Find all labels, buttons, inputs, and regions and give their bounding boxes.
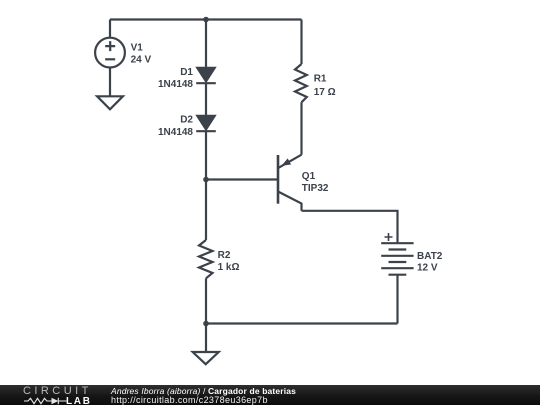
diode D1 [196, 68, 216, 83]
footer text line 2 [111, 395, 268, 405]
svg-text:TIP32: TIP32 [302, 183, 329, 194]
wire bottom net (node C to BAT2) [206, 322, 398, 324]
resistor R2 [199, 240, 213, 278]
wire D1 to D2 [205, 83, 207, 116]
wire top net (V1 to R1 through node A) [110, 18, 302, 20]
label D2 value [158, 115, 193, 138]
label D1 value [158, 67, 193, 90]
node C (bottom junction) [203, 321, 209, 327]
node B (base junction) [203, 177, 209, 183]
label BAT2 plus terminal [385, 233, 393, 241]
svg-text:D2: D2 [180, 115, 193, 126]
wire V1 top stem [109, 20, 111, 38]
svg-text:R1: R1 [314, 73, 327, 84]
CircuitLab logo symbol row (resistor + diode) and LAB [23, 397, 69, 405]
label Q1 value [302, 171, 329, 194]
svg-text:V1: V1 [131, 42, 144, 53]
wire R1 to Q1 emitter [300, 102, 302, 154]
wire node A to D1 [205, 20, 207, 69]
voltage source V1 [95, 38, 125, 68]
label V1 value [131, 42, 152, 65]
wire node C to ground [205, 324, 207, 353]
wire BAT2 bottom stem [396, 275, 398, 324]
wire D2 to node B [205, 131, 207, 179]
svg-text:R2: R2 [218, 250, 231, 261]
ground (bottom) [193, 352, 219, 364]
label R2 value [218, 250, 240, 273]
footer text line 1 [111, 386, 296, 396]
ground (below V1) [97, 96, 123, 109]
label R1 value [314, 73, 336, 98]
svg-text:1N4148: 1N4148 [158, 127, 193, 138]
battery BAT2 [381, 243, 413, 275]
footer bar [0, 385, 540, 406]
wire node B to R2 [205, 180, 207, 241]
wire Q1 collector to BAT2 [302, 211, 398, 243]
svg-text:17 Ω: 17 Ω [314, 87, 336, 98]
svg-text:Q1: Q1 [302, 171, 316, 182]
svg-text:1 kΩ: 1 kΩ [218, 262, 240, 273]
node A (top junction) [203, 17, 209, 23]
diode D2 [196, 116, 216, 131]
svg-text:1N4148: 1N4148 [158, 79, 193, 90]
CircuitLab logo wordmark CIRCUIT [23, 385, 92, 397]
svg-text:D1: D1 [180, 67, 193, 78]
resistor R1 [295, 64, 307, 102]
svg-text:24 V: 24 V [131, 55, 152, 66]
svg-text:BAT2: BAT2 [417, 251, 443, 262]
wire V1 bottom stem [109, 68, 111, 96]
svg-text:12 V: 12 V [417, 262, 438, 273]
label BAT2 value [417, 251, 443, 273]
wire R2 bottom stem [205, 278, 207, 323]
wire R1 top stem [300, 20, 302, 65]
wire base (node B to Q1) [206, 178, 278, 180]
transistor Q1 (PNP TIP32) [278, 155, 302, 211]
